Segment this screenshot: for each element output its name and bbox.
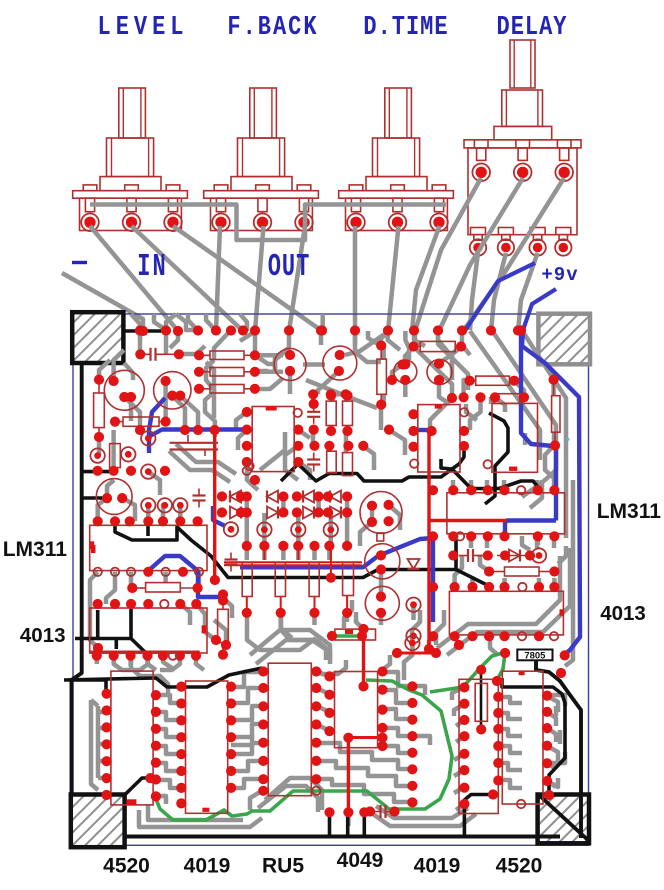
wire (303, 362, 325, 367)
wire (454, 704, 464, 716)
resistor R18 (210, 385, 244, 394)
wire (485, 536, 490, 548)
board outline (73, 314, 589, 845)
wire (247, 613, 316, 650)
wire (196, 655, 204, 670)
wire (456, 804, 464, 810)
resistor R8 (343, 401, 353, 425)
transistor Q10 (365, 586, 399, 620)
wire (552, 536, 557, 548)
wire black top-left (123, 329, 166, 333)
wire lead R11 (380, 346, 382, 360)
capacitor C8 (379, 805, 381, 818)
wire (98, 498, 107, 521)
wire (106, 572, 115, 604)
wire (360, 522, 372, 546)
wire (179, 346, 205, 354)
wire black stub (456, 539, 489, 586)
wire (456, 720, 464, 726)
wire (240, 314, 247, 331)
wire (245, 497, 250, 546)
wire (329, 530, 334, 546)
wire (381, 348, 386, 359)
wire green hook (497, 653, 505, 680)
wire red stub r5 (314, 597, 316, 613)
wire red bus bot (224, 564, 362, 566)
IC U7 4520 left (111, 671, 153, 805)
wire (404, 643, 412, 672)
wire (537, 578, 542, 587)
wire (353, 331, 358, 345)
wire (547, 781, 556, 787)
wire (344, 394, 349, 401)
transistor Q1 (104, 370, 144, 410)
wire (253, 331, 258, 355)
capacitor C5 electrolytic (170, 442, 218, 444)
wire (470, 397, 481, 430)
wire (316, 743, 355, 752)
wire (214, 330, 231, 360)
wire (368, 331, 381, 346)
wire lead R1 (98, 380, 100, 393)
resistor R23 (218, 609, 229, 642)
wire LEVEL lug1 (90, 226, 178, 331)
wire DELAY top lug3 (463, 178, 564, 331)
wire (275, 331, 289, 370)
wire (96, 706, 101, 778)
wire (491, 329, 556, 497)
resistor R11 (377, 359, 387, 394)
test point (566, 438, 569, 441)
wire green main (156, 680, 452, 820)
wire (281, 613, 292, 638)
wire (430, 398, 452, 430)
wire (205, 362, 215, 437)
wire (197, 572, 202, 588)
wire (316, 497, 321, 512)
resistor R17 (210, 368, 244, 377)
svg-text:4019: 4019 (414, 855, 461, 878)
IC U2b companion (492, 403, 538, 472)
wire blue b3b (150, 430, 247, 437)
wire (111, 430, 116, 470)
wire (281, 613, 326, 660)
svg-text:LM311: LM311 (597, 500, 662, 523)
transistor Q3 (274, 349, 306, 381)
wire (470, 578, 475, 587)
wire (265, 778, 322, 810)
wire (547, 752, 565, 763)
wire black U4 h (75, 637, 131, 641)
diode D3 (303, 491, 314, 503)
resistor R19 (420, 341, 455, 351)
wire (412, 610, 420, 643)
wire DELAY bot lug1 (470, 253, 478, 330)
wire (379, 613, 384, 625)
wire blue b8 tail (505, 521, 556, 537)
pad mark (509, 467, 517, 471)
svg-text:4520: 4520 (496, 855, 543, 878)
wire (383, 672, 413, 686)
wire (470, 331, 540, 460)
wire red stub u3 (330, 546, 332, 560)
wire (258, 786, 318, 812)
capacitor C1 (149, 348, 151, 361)
wire (91, 700, 98, 790)
wire (363, 446, 374, 470)
IC U8 4019 left (186, 681, 228, 813)
wire (498, 763, 522, 770)
wire red vert left (213, 430, 216, 580)
pad mark (345, 630, 353, 635)
wire (231, 779, 263, 788)
wire (156, 695, 181, 703)
wire (138, 331, 143, 354)
hole pads (94, 408, 559, 808)
wire (129, 397, 134, 421)
wire (412, 686, 425, 695)
wire lead R17 (199, 371, 210, 373)
mount pad bottom-right (538, 795, 589, 844)
wire DELAY bot lug2 (491, 253, 506, 331)
wire red stub u (263, 546, 265, 560)
wire (319, 331, 324, 345)
wire lead R20 (470, 380, 476, 382)
wire (188, 314, 198, 331)
transistor Q2 (154, 372, 191, 409)
wire (344, 431, 349, 452)
wire (256, 640, 330, 664)
wire (172, 396, 185, 430)
wire (316, 761, 352, 768)
wire (350, 785, 412, 802)
wire (405, 331, 409, 360)
svg-text:4049: 4049 (337, 849, 384, 872)
wire black U4 stub (115, 639, 119, 650)
wire (288, 371, 293, 394)
potentiometer VR1 LEVEL (73, 88, 188, 231)
wire (236, 412, 247, 430)
wire black left edge (72, 363, 82, 795)
wire black 7805 lead (536, 660, 581, 838)
resistor R20 (476, 376, 510, 385)
wire (547, 695, 565, 706)
wire (383, 728, 413, 736)
wire (455, 556, 462, 587)
wire (164, 331, 169, 354)
wire (98, 776, 107, 781)
wire (547, 746, 558, 762)
wire (98, 726, 107, 731)
wire (318, 371, 339, 394)
wire (316, 688, 329, 694)
IC U3 LM311 left (90, 525, 207, 570)
wire black U4 vb (131, 609, 146, 653)
wire (156, 763, 181, 771)
wire (456, 736, 464, 742)
wire (547, 696, 558, 712)
wire red bus top (224, 561, 362, 563)
wire (462, 331, 470, 355)
wire (124, 397, 140, 430)
wire (535, 536, 540, 548)
wire (331, 394, 336, 401)
wire lead D9 (497, 555, 530, 557)
wire pot bus (90, 205, 446, 241)
wire (231, 706, 263, 720)
wire (345, 332, 388, 355)
wire (97, 437, 102, 455)
wire (454, 770, 464, 776)
resistor R9 (327, 451, 337, 473)
wire (95, 656, 100, 664)
wire (356, 612, 364, 629)
wire (379, 570, 384, 596)
wire (296, 513, 301, 529)
wire (547, 728, 556, 742)
IC U5 LM311 right (447, 493, 565, 534)
wire (296, 530, 301, 546)
capacitor C6 (225, 558, 238, 560)
IC U12 4520 right (502, 671, 543, 804)
wire (498, 746, 522, 753)
wire (331, 392, 346, 397)
wire lead R14 (114, 421, 123, 423)
wire (316, 706, 329, 712)
wire (571, 480, 576, 648)
wire +9v blue right (523, 289, 556, 330)
wire (521, 329, 566, 538)
wire (206, 314, 216, 331)
wire blue b8 inner (521, 331, 556, 521)
wire black A (485, 413, 508, 504)
capacitor C3 (307, 411, 320, 413)
wire (206, 360, 214, 418)
wire (345, 613, 350, 622)
wire (154, 314, 166, 330)
wire (498, 729, 522, 736)
diode D5 (230, 507, 241, 519)
wire (402, 672, 407, 680)
wire (281, 497, 286, 512)
resistor R4 (275, 563, 285, 597)
wire D.TIME lug1 (353, 226, 358, 331)
wire (238, 430, 247, 450)
wire black U4 va (96, 610, 100, 639)
wire (231, 672, 263, 687)
wire (535, 480, 540, 490)
wire (389, 430, 405, 455)
wire red T8 vert2 (362, 629, 365, 686)
wire minus input (62, 273, 143, 331)
wire (176, 314, 198, 330)
wire (466, 404, 477, 420)
wire (111, 656, 116, 664)
wire (545, 432, 554, 490)
wire (389, 505, 400, 530)
wire (438, 333, 468, 390)
wire (255, 353, 283, 358)
wire (231, 761, 263, 771)
wire (296, 546, 301, 560)
resistor R14 (123, 417, 159, 426)
wire (156, 746, 181, 754)
transistor Q8 (360, 492, 402, 534)
wire blue b5 (148, 556, 224, 597)
wire (346, 812, 351, 826)
svg-text:+9v: +9v (541, 264, 578, 286)
wire (403, 380, 408, 397)
wire (214, 620, 226, 645)
wire (122, 498, 135, 521)
wire blue b6 (213, 506, 225, 526)
wire (380, 331, 388, 346)
wire (128, 656, 133, 666)
wire (344, 600, 352, 628)
wire black T4 stub (146, 521, 150, 536)
wire (452, 345, 462, 380)
wire (437, 556, 560, 648)
wire (262, 546, 267, 560)
wire (452, 687, 464, 700)
wire (551, 380, 556, 395)
transistor Q4 (323, 346, 357, 380)
svg-text:F.BACK: F.BACK (227, 13, 318, 43)
wire (98, 742, 107, 747)
wire (415, 333, 452, 398)
wire (451, 480, 456, 490)
wire (469, 536, 474, 548)
diode D1 (230, 491, 241, 503)
inductor L1 (335, 629, 376, 640)
wire (311, 430, 316, 446)
wire (414, 331, 425, 346)
wire black sq diag (124, 778, 151, 796)
wire (275, 348, 289, 370)
wire (196, 604, 216, 640)
wire (163, 572, 168, 582)
wire (547, 763, 556, 769)
pad mark (202, 625, 207, 633)
wire (370, 506, 375, 522)
mount pad bottom-left (71, 795, 125, 848)
wire red stub u2 (297, 546, 299, 560)
wire (240, 331, 255, 341)
wire (231, 724, 263, 737)
wire (438, 331, 448, 352)
regulator 7805 (517, 650, 552, 661)
wire (156, 780, 181, 788)
wire red lead mid (330, 547, 332, 578)
capacitor C2 (193, 494, 206, 496)
transistor Q6 (427, 360, 452, 385)
wire (552, 578, 557, 587)
wire (255, 378, 283, 389)
wire (383, 746, 413, 753)
wire (316, 724, 329, 731)
wire (464, 380, 470, 397)
wire red stub r4 (280, 597, 282, 613)
wire black R lead (480, 668, 483, 731)
wire (166, 314, 176, 331)
wire (306, 380, 377, 408)
wire (439, 380, 450, 404)
wire (163, 656, 172, 668)
wire green T5 (332, 634, 362, 638)
pad mark (91, 545, 96, 553)
wire (382, 655, 390, 670)
IC U11 4019 right (459, 679, 498, 813)
diode D2 (267, 491, 278, 503)
wire red vert right (427, 431, 430, 649)
wire (98, 710, 107, 715)
wire (495, 397, 505, 412)
wire black T7 a (68, 680, 106, 695)
wire (383, 709, 413, 719)
wire (316, 660, 346, 674)
wire D.TIME lug2 (388, 226, 399, 331)
wire black T9 inner (502, 678, 565, 795)
transistor Q5 (394, 360, 417, 383)
wire (124, 363, 133, 380)
wire (454, 787, 464, 793)
svg-text:4013: 4013 (600, 602, 646, 625)
wire black stub3 (362, 812, 366, 836)
wire (498, 713, 522, 719)
wire (298, 462, 310, 480)
wire (514, 381, 524, 397)
capacitor C4 (307, 458, 320, 460)
wire (90, 572, 98, 648)
wire (480, 556, 489, 571)
wire blue b7 (240, 538, 433, 622)
wire black bottom border (124, 835, 561, 839)
wire (250, 630, 330, 660)
resistor R10 (343, 453, 353, 476)
pad mark (126, 799, 136, 805)
wire (327, 446, 332, 452)
wire lead R19 (414, 346, 421, 348)
wire (547, 712, 556, 726)
wire lead R16 (199, 354, 210, 356)
wire (530, 480, 542, 508)
mount pad top-right (538, 314, 590, 365)
wire (370, 812, 476, 826)
wire (381, 394, 386, 404)
wire (490, 636, 498, 655)
wire (298, 430, 310, 438)
wire (148, 472, 160, 495)
diode D4 (330, 491, 341, 503)
wire (260, 432, 285, 470)
wire (131, 314, 140, 331)
wire (262, 513, 267, 529)
wire (329, 513, 334, 529)
wire (255, 369, 268, 374)
wire (392, 365, 403, 381)
wire (436, 610, 444, 645)
wire (247, 462, 258, 490)
wire black B (441, 459, 538, 489)
wire (131, 656, 168, 694)
IC U9 RU5 (268, 663, 311, 796)
wire (558, 546, 566, 564)
wire (316, 779, 350, 785)
wire (250, 790, 263, 810)
via pads (92, 325, 570, 817)
wire (99, 360, 110, 380)
potentiometer VR2 F.BACK (204, 88, 319, 231)
